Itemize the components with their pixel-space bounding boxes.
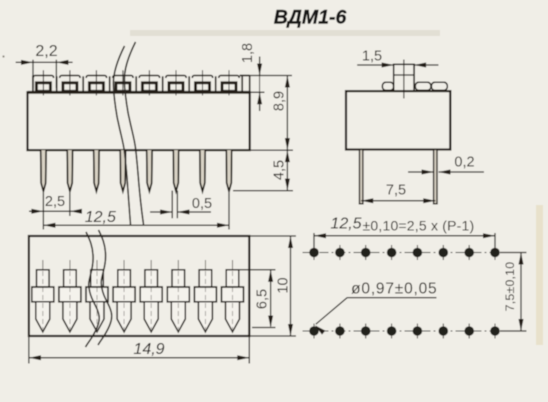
svg-text:0,2: 0,2: [454, 155, 474, 171]
svg-text:12,5: 12,5: [85, 209, 116, 226]
svg-text:7,5±0,10: 7,5±0,10: [503, 262, 517, 312]
svg-text:1,8: 1,8: [240, 43, 256, 63]
svg-text:2,2: 2,2: [35, 43, 57, 60]
svg-text:12,5: 12,5: [330, 216, 361, 233]
svg-text:ø0,97±0,05: ø0,97±0,05: [351, 281, 437, 298]
svg-text:7,5: 7,5: [386, 183, 406, 199]
svg-text:10: 10: [276, 277, 292, 293]
svg-text:14,9: 14,9: [133, 341, 164, 358]
svg-text:ВДМ1-6: ВДМ1-6: [274, 7, 347, 29]
svg-text:4,5: 4,5: [272, 160, 288, 180]
svg-text:1,5: 1,5: [362, 49, 382, 65]
svg-text:6,5: 6,5: [255, 289, 271, 309]
svg-text:8,9: 8,9: [272, 91, 288, 111]
svg-text:±0,10=2,5 х (Р-1): ±0,10=2,5 х (Р-1): [363, 218, 475, 234]
svg-text:2,5: 2,5: [45, 194, 65, 210]
svg-text:0,5: 0,5: [192, 196, 212, 212]
